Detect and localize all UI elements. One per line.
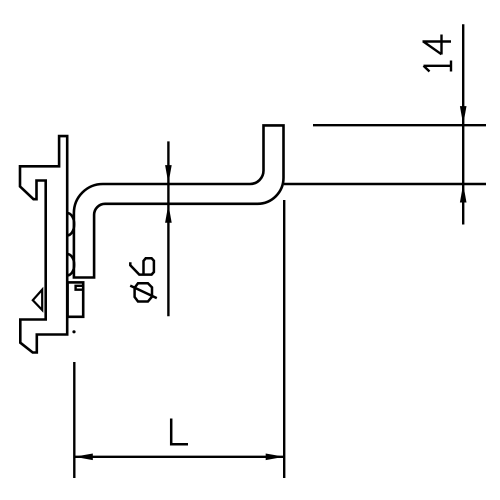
latch triangle <box>33 290 42 310</box>
weld bump upper <box>67 213 74 236</box>
dim Ø6: label glyph Ø (rotated) <box>130 283 157 301</box>
dim Ø6: arrowhead up <box>165 204 172 223</box>
dim 14: extension line from hook tip top <box>313 124 486 126</box>
bracket block below rod <box>68 282 84 316</box>
bracket notch <box>76 286 84 290</box>
hook rod (bent wire, side view) <box>74 125 284 277</box>
dim 14: label digit 1 (rotated) <box>424 61 452 72</box>
dim Ø6: label glyph 6 (rotated) <box>130 258 154 274</box>
dim 14: arrowhead down <box>460 106 467 125</box>
dim Ø6: dimension line <box>167 141 169 316</box>
dim Ø6: arrowhead down <box>165 165 172 184</box>
dim L: arrowhead right <box>266 454 285 461</box>
dim L: left extension line <box>73 362 75 478</box>
dim L: dimension line <box>74 456 284 458</box>
weld bump lower <box>67 254 74 276</box>
dim 14: arrowhead up <box>460 184 467 203</box>
dim 14: extension line from rod top edge <box>284 183 486 185</box>
dim L: right extension line <box>283 200 285 478</box>
dim L: arrowhead left <box>74 454 93 461</box>
dim 14: dimension line <box>462 24 464 224</box>
small dot <box>72 330 75 333</box>
dim 14: label digit 4 (rotated) <box>423 35 452 55</box>
dim L: label <box>171 419 188 445</box>
rail clip profile with mounting plate (closed outline) <box>20 136 67 352</box>
